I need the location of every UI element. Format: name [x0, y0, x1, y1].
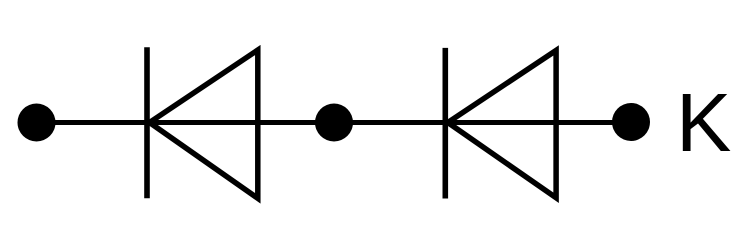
svg-text:K: K [676, 76, 731, 169]
